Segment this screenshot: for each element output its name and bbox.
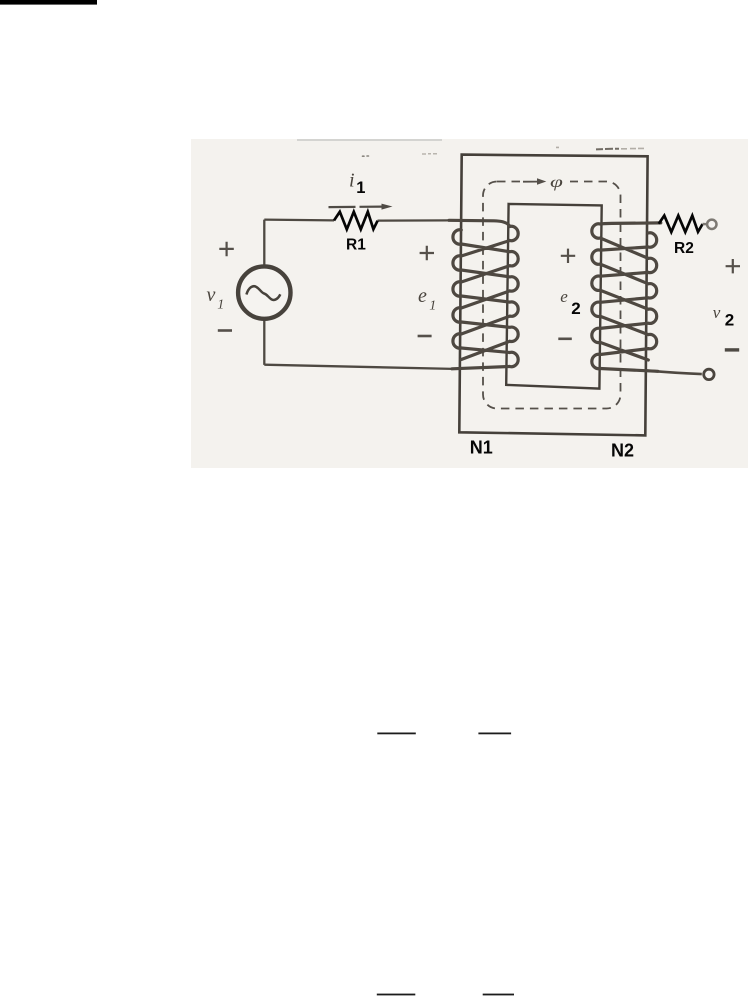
primary coil N1 bbox=[449, 220, 518, 368]
svg-text:v: v bbox=[207, 284, 216, 306]
scan artifact faint line bbox=[297, 139, 442, 141]
wire bottom right terminal bbox=[646, 370, 702, 374]
flux arrow bbox=[523, 178, 546, 185]
fraction bar 1b bbox=[478, 733, 511, 735]
label minus v2 bbox=[725, 348, 739, 351]
wire top: source to R1 to core bbox=[264, 218, 334, 221]
resistor R2 bbox=[659, 216, 703, 232]
fraction bar 2b bbox=[483, 994, 514, 996]
wire left vertical (source) bbox=[263, 220, 265, 365]
svg-text:1: 1 bbox=[429, 299, 436, 314]
terminal top right bbox=[703, 223, 707, 226]
svg-text:2: 2 bbox=[571, 299, 580, 318]
wire top: R1 to transformer bbox=[378, 219, 450, 222]
label plus e1 bbox=[420, 246, 434, 260]
flux label mask bbox=[523, 172, 570, 190]
black bar top-left bbox=[0, 0, 97, 5]
fraction bar 2a bbox=[377, 994, 416, 996]
current arrow i1 bbox=[329, 204, 393, 210]
transformer core window bbox=[506, 204, 602, 389]
svg-text:N2: N2 bbox=[611, 441, 634, 461]
svg-text:i: i bbox=[349, 170, 355, 192]
svg-text:e: e bbox=[560, 287, 568, 306]
label minus e1 bbox=[418, 335, 432, 338]
secondary coil N2 bbox=[592, 223, 661, 371]
svg-text:2: 2 bbox=[725, 311, 734, 330]
label minus e2 bbox=[558, 337, 572, 340]
transformer core outer bbox=[459, 155, 647, 436]
label plus v2 bbox=[726, 259, 740, 273]
fraction bar 1a bbox=[377, 733, 416, 735]
svg-text:v: v bbox=[713, 303, 721, 322]
ac source V1 bbox=[238, 266, 290, 318]
svg-text:R1: R1 bbox=[346, 237, 366, 254]
svg-text:R2: R2 bbox=[674, 240, 694, 257]
svg-text:N1: N1 bbox=[470, 438, 493, 458]
terminal bottom right bbox=[704, 369, 714, 379]
svg-text:φ: φ bbox=[550, 174, 563, 191]
resistor R1 bbox=[334, 212, 378, 230]
flux path dashed bbox=[483, 182, 621, 409]
label phi bbox=[550, 174, 563, 191]
label plus v1 bbox=[219, 242, 234, 257]
scan background tint bbox=[191, 139, 748, 468]
wire bottom: source to coil bbox=[264, 365, 452, 369]
svg-text:1: 1 bbox=[356, 179, 365, 197]
label plus e2 bbox=[561, 249, 575, 263]
scan artifact dash row top of core bbox=[596, 148, 619, 151]
scan artifact dots bbox=[363, 155, 369, 157]
svg-text:e: e bbox=[418, 285, 427, 307]
scan artifact dashes left of core bbox=[422, 153, 437, 155]
sine wave bbox=[246, 286, 280, 300]
label minus v1 bbox=[218, 329, 232, 332]
svg-text:1: 1 bbox=[217, 298, 224, 313]
